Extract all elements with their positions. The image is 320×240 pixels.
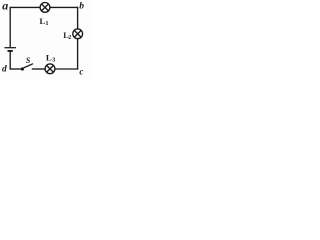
svg-text:S: S [26,56,31,65]
battery cell negative plate [8,50,13,52]
svg-text:b: b [79,1,84,12]
wire L3 to switch [32,68,45,70]
switch S blade [24,64,33,68]
wire battery up to a corner [9,7,11,48]
lamp L2 [73,29,83,39]
lamp L1 [40,3,50,13]
wire switch to d corner [10,68,22,70]
wire L2 down to c corner [77,39,79,70]
wire L1 to b corner [50,6,78,8]
battery cell positive plate [4,47,16,49]
svg-text:a: a [2,0,8,12]
lamp L3 [45,64,55,74]
svg-text:d: d [2,64,7,74]
switch S pivot dot [21,67,24,70]
wire top-left a to L1 [10,6,40,8]
wire right side b down to L2 [77,7,79,29]
wire left side d up to battery [9,51,11,69]
wire bottom c corner to L3 [55,68,78,70]
svg-text:c: c [79,67,83,77]
